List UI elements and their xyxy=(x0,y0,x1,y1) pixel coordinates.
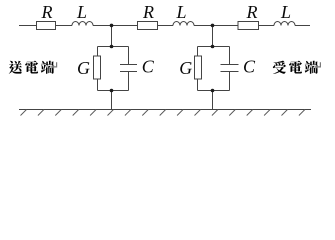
wire: shunt branch 1 bottom bar xyxy=(98,90,129,92)
capacitor C (second, top plate) xyxy=(221,64,239,66)
resistor R (third series box) xyxy=(238,22,259,30)
svg-text:L: L xyxy=(280,2,291,22)
wire: R3 to L3 xyxy=(259,25,275,27)
line-break mark after 受電端 xyxy=(316,62,320,68)
svg-text:G: G xyxy=(77,58,90,78)
inductor L (second coil) xyxy=(173,22,194,26)
wire: left lead to R1 xyxy=(19,25,37,27)
inductor L (first coil) xyxy=(72,22,93,26)
line-break mark after 送電端 xyxy=(52,62,56,68)
wire: L3 to right lead end xyxy=(295,25,310,27)
resistor R (second series box) xyxy=(138,22,158,30)
wire: G2 bottom leg xyxy=(197,79,199,91)
resistor R (first series box) xyxy=(37,22,56,30)
svg-text:C: C xyxy=(243,57,256,77)
wire: C2 bottom leg xyxy=(229,72,231,91)
wire: branch 2 drop to ground xyxy=(212,91,214,110)
wire: L2 to node 2 and on to R3 xyxy=(194,25,238,27)
junction dot branch 1 top xyxy=(110,45,114,49)
wire: G2 top leg xyxy=(197,47,199,57)
wire: node 1 drop to shunt branch 1 xyxy=(111,26,113,47)
text 送電端 (sending end) xyxy=(9,61,54,74)
wire: shunt branch 2 top bar xyxy=(198,46,230,48)
wire: R1 to L1 xyxy=(56,25,73,27)
svg-text:R: R xyxy=(246,2,258,22)
junction dot branch 2 top xyxy=(211,45,215,49)
wire: branch 1 drop to ground xyxy=(111,91,113,110)
wire: C1 bottom leg xyxy=(128,72,130,91)
svg-text:R: R xyxy=(41,2,53,22)
ground plane line xyxy=(19,109,311,111)
conductance G (first shunt box) xyxy=(94,56,101,79)
wire: node 2 drop to shunt branch 2 xyxy=(212,26,214,47)
text 受電端 (receiving end) xyxy=(273,61,318,74)
svg-text:R: R xyxy=(142,2,154,22)
junction dot node 1 xyxy=(110,24,114,28)
junction dot node 2 xyxy=(211,24,215,28)
capacitor C (first, bottom plate) xyxy=(120,71,137,73)
wire: R2 to L2 xyxy=(158,25,174,27)
wire: shunt branch 1 top bar xyxy=(98,46,129,48)
junction dot branch 1 bottom xyxy=(110,89,114,93)
wire: G1 top leg xyxy=(97,47,99,57)
svg-text:L: L xyxy=(175,2,186,22)
svg-text:C: C xyxy=(142,57,155,77)
svg-text:G: G xyxy=(179,58,192,78)
wire: C1 top leg xyxy=(128,47,130,65)
wire: L1 to node 1 and on to R2 xyxy=(93,25,138,27)
svg-text:L: L xyxy=(76,2,87,22)
wire: shunt branch 2 bottom bar xyxy=(198,90,230,92)
ground hatching xyxy=(21,110,305,116)
capacitor C (first, top plate) xyxy=(120,64,137,66)
capacitor C (second, bottom plate) xyxy=(221,71,239,73)
junction dot branch 2 bottom xyxy=(211,89,215,93)
inductor L (third coil) xyxy=(274,22,295,26)
wire: C2 top leg xyxy=(229,47,231,65)
wire: G1 bottom leg xyxy=(97,79,99,91)
conductance G (second shunt box) xyxy=(195,56,202,79)
